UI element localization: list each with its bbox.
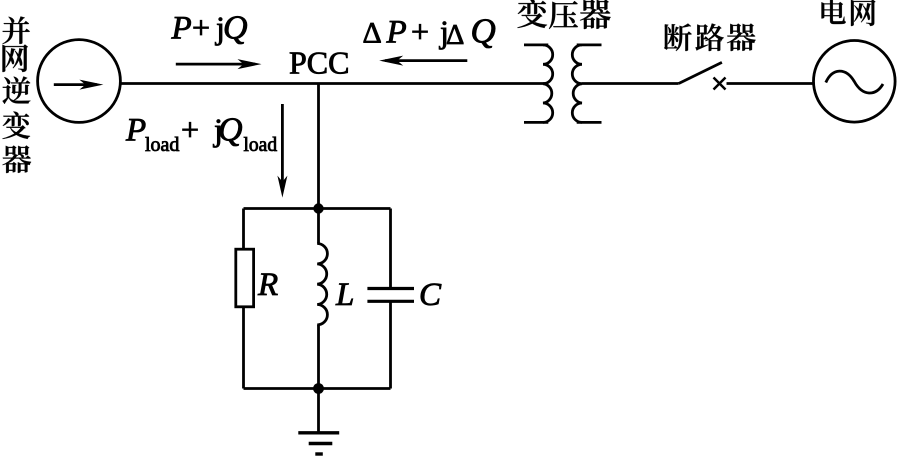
svg-text:L: L	[335, 277, 354, 313]
svg-text:+: +	[181, 112, 199, 148]
svg-text:Q: Q	[218, 112, 243, 149]
circuit breaker QF blade (open switch)	[679, 62, 722, 83]
grid AC source circle	[814, 41, 896, 123]
inverter output arrow (inside G1)	[54, 80, 104, 90]
label 并网逆变器 (grid-connected inverter), vertical	[2, 16, 31, 173]
wire: transformer secondary to breaker	[582, 82, 679, 85]
wire: breaker to grid source	[727, 82, 814, 85]
circuit breaker QF label 断路器	[664, 23, 756, 51]
svg-text:P: P	[171, 11, 192, 47]
wire: capacitor C to bottom rail	[389, 301, 392, 388]
svg-text:C: C	[419, 277, 442, 313]
svg-text:+: +	[411, 13, 429, 49]
svg-text:Q: Q	[471, 11, 496, 50]
power-flow arrow P+jQ (rightward)	[176, 59, 262, 69]
junction node dot (top of load)	[313, 203, 323, 213]
transformer T1 label 变压器	[517, 0, 610, 29]
wire: bottom dot to ground	[317, 389, 320, 433]
wire: resistor R to bottom rail	[242, 307, 245, 389]
label 电网 (grid)	[822, 0, 876, 26]
wire: load box top rail	[244, 207, 391, 210]
load power arrow P_load+jQ_load (downward)	[277, 104, 287, 198]
label ΔP+jΔQ	[363, 11, 496, 51]
svg-text:PCC: PCC	[289, 45, 349, 81]
svg-text:load: load	[145, 134, 179, 156]
transformer T1 secondary winding	[572, 45, 601, 123]
wire: top rail to capacitor C	[389, 209, 392, 289]
ground symbol	[298, 433, 339, 454]
svg-text:+: +	[192, 10, 210, 46]
wire: load box bottom rail	[244, 387, 391, 390]
svg-text:Δ: Δ	[363, 16, 382, 49]
svg-text:R: R	[257, 267, 278, 303]
inductor L coil	[317, 244, 327, 325]
wire: top rail to resistor R	[242, 209, 245, 250]
label P_load + jQ_load	[125, 112, 277, 157]
wire: inverter to transformer primary (main bus, node PCC)	[120, 82, 548, 85]
svg-text:load: load	[244, 135, 278, 156]
power-flow arrow ΔP+jΔQ (leftward)	[379, 56, 467, 66]
svg-text:Δ: Δ	[446, 20, 464, 51]
svg-text:P: P	[125, 113, 146, 149]
junction node dot (bottom of load)	[313, 383, 324, 394]
capacitor C top plate	[367, 287, 414, 290]
wire: inductor L to bottom dot	[317, 325, 320, 389]
svg-text:P: P	[386, 14, 407, 50]
label P+jQ	[171, 10, 248, 47]
capacitor C bottom plate	[367, 300, 414, 303]
grid AC source sine wave	[826, 71, 883, 93]
resistor R body	[236, 249, 254, 307]
inverter source G1 circle	[38, 40, 121, 123]
wire: top dot to inductor L	[317, 209, 320, 244]
wire: PCC vertical drop to load	[317, 84, 320, 209]
svg-text:Q: Q	[223, 10, 248, 47]
transformer T1 primary winding	[524, 45, 553, 123]
circuit breaker QF contact mark x	[714, 78, 726, 90]
